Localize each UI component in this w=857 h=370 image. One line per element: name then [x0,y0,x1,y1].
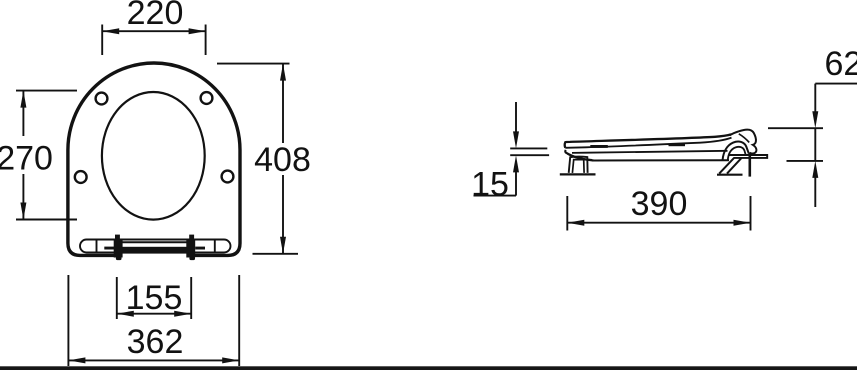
svg-text:62: 62 [825,45,857,83]
svg-text:220: 220 [127,0,184,32]
svg-text:408: 408 [254,141,311,179]
svg-text:15: 15 [471,165,509,203]
svg-text:270: 270 [0,140,53,178]
svg-text:362: 362 [127,323,184,361]
svg-text:390: 390 [631,185,688,223]
svg-text:155: 155 [126,279,183,317]
